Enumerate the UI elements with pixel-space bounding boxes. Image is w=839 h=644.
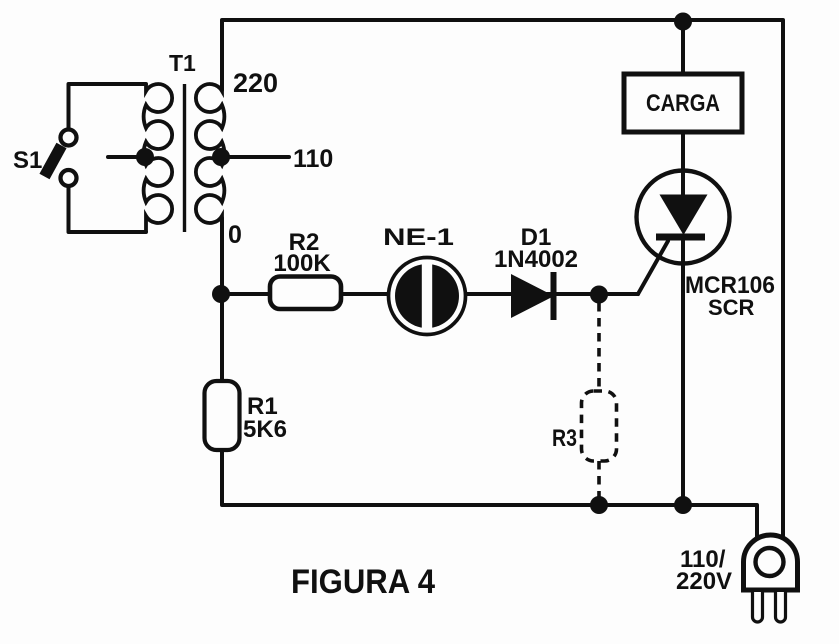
svg-text:S1: S1 [13, 147, 42, 174]
switch S1 lever [45, 146, 62, 177]
transformer T1 core [183, 84, 186, 232]
node middle left junction [212, 285, 230, 303]
wire S1 loop top [69, 84, 147, 129]
neon lamp NE-1 [389, 258, 466, 335]
svg-text:1N4002: 1N4002 [494, 246, 578, 273]
resistor R1 body [205, 381, 240, 450]
svg-text:CARGA: CARGA [646, 90, 720, 117]
svg-text:220: 220 [233, 68, 278, 98]
wire top rail and right rail [222, 20, 783, 537]
SCR MCR106 [637, 171, 730, 264]
node gate junction [590, 286, 608, 304]
svg-text:FIGURA 4: FIGURA 4 [291, 563, 435, 601]
wire gate diagonal [638, 241, 668, 294]
node secondary 110 tap [212, 148, 230, 166]
svg-text:NE-1: NE-1 [383, 224, 454, 251]
resistor R3 dashed optional [582, 303, 617, 505]
svg-text:110: 110 [293, 145, 333, 173]
switch S1 bottom contact [61, 170, 77, 186]
wire secondary bottom to middle node [220, 218, 224, 294]
switch S1 top contact [61, 130, 77, 146]
CARGA load box [624, 74, 742, 132]
svg-text:100K: 100K [273, 250, 331, 277]
diode D1 [511, 272, 557, 320]
wire primary tap stub [108, 155, 144, 159]
svg-text:R3: R3 [552, 425, 577, 452]
svg-text:0: 0 [228, 221, 242, 249]
wire S1 loop bottom [69, 186, 147, 232]
node SCR cathode junction [674, 496, 692, 514]
wire CARGA branch anode [681, 20, 685, 196]
node top junction [674, 13, 692, 31]
wire R1 bottom to bottom rail and to plug [222, 450, 757, 537]
node R3 bottom junction [590, 496, 608, 514]
node primary tap [136, 148, 154, 166]
wire SCR cathode down to bottom rail [681, 238, 685, 505]
svg-text:T1: T1 [169, 50, 196, 76]
wire middle node down to R1 [220, 294, 224, 381]
transformer T1 primary winding [144, 84, 172, 232]
wire secondary 110 tap [228, 155, 289, 159]
svg-text:SCR: SCR [708, 295, 755, 320]
plug 110/220V [744, 535, 798, 622]
svg-text:5K6: 5K6 [243, 416, 287, 443]
resistor R2 body [270, 277, 341, 310]
transformer T1 secondary winding [196, 84, 224, 232]
wire middle row [222, 292, 638, 296]
svg-text:220V: 220V [676, 568, 732, 595]
